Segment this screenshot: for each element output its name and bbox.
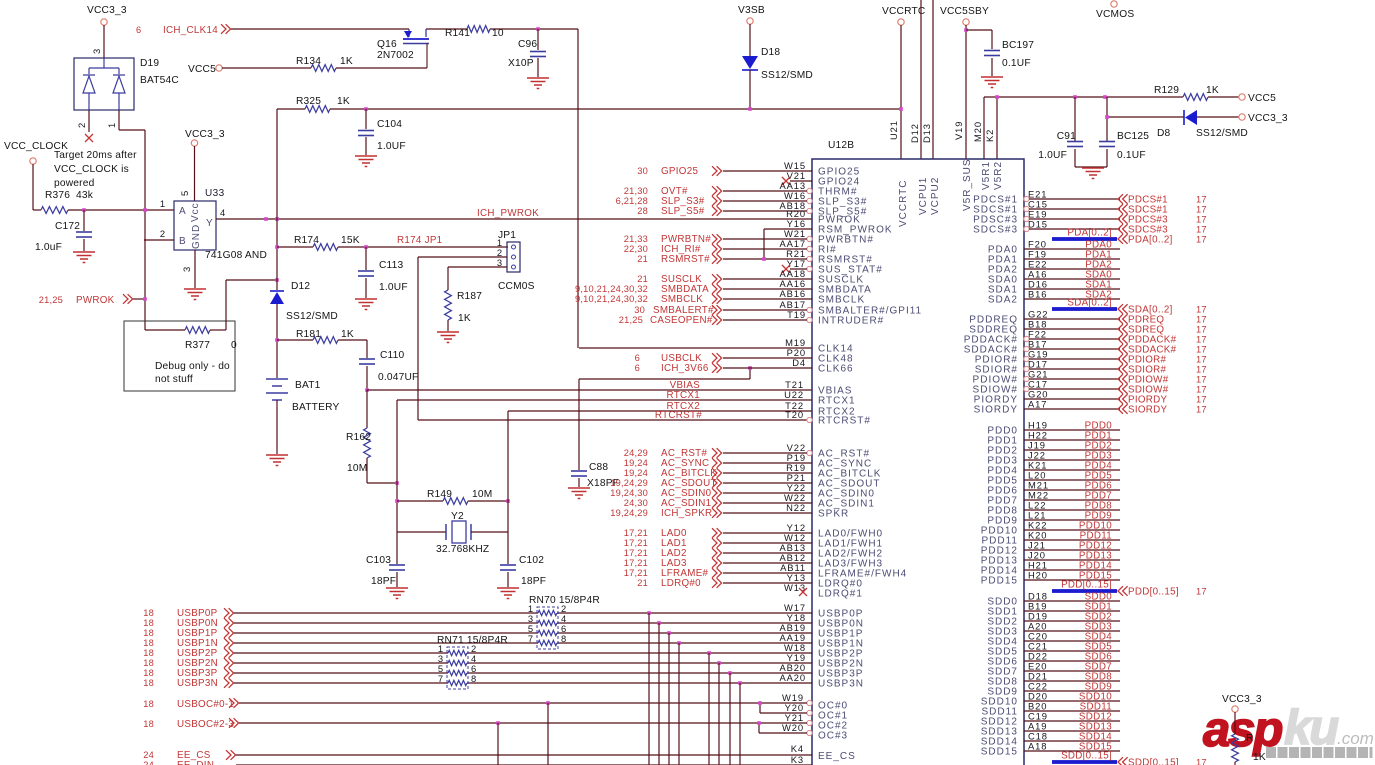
ground	[355, 298, 377, 300]
wire	[723, 552, 812, 554]
svg-text:T20: T20	[785, 409, 804, 420]
svg-text:D12: D12	[909, 123, 920, 143]
chevron	[712, 186, 722, 196]
svg-text:U22: U22	[784, 389, 804, 400]
svg-text:21,30: 21,30	[624, 186, 648, 196]
wire	[133, 298, 145, 300]
capacitor C110 0.047UF	[359, 358, 375, 360]
svg-text:R134: R134	[296, 56, 321, 67]
svg-text:ICH_3V66: ICH_3V66	[661, 363, 709, 374]
svg-text:18: 18	[143, 719, 154, 729]
chevron	[1118, 204, 1128, 214]
svg-text:U12B: U12B	[828, 140, 854, 151]
wire	[1029, 338, 1120, 340]
wire	[1024, 509, 1120, 511]
svg-text:17: 17	[1196, 235, 1207, 245]
svg-text:19,24,30: 19,24,30	[610, 488, 648, 498]
wire	[1024, 449, 1120, 451]
wire	[1024, 539, 1120, 541]
svg-text:D15: D15	[1028, 219, 1048, 230]
capacitor C102 18PF	[507, 532, 509, 564]
wire JP1 pin2 to RTCRST#	[418, 256, 507, 258]
wire	[1024, 398, 1120, 400]
wire	[145, 329, 185, 331]
wire	[447, 320, 449, 331]
svg-text:V19: V19	[953, 121, 964, 140]
svg-text:K4: K4	[791, 743, 804, 754]
wire	[723, 200, 807, 202]
wire	[1075, 166, 1107, 168]
wire	[739, 683, 741, 765]
ground	[73, 251, 95, 253]
wire	[764, 228, 812, 230]
svg-text:6: 6	[136, 25, 141, 35]
svg-text:PWROK: PWROK	[76, 295, 115, 306]
chevron	[1118, 757, 1128, 765]
bus PDD[0..15]	[1052, 589, 1117, 593]
junction	[365, 388, 369, 392]
svg-text:R377: R377	[185, 340, 210, 351]
svg-text:0.1UF: 0.1UF	[1117, 150, 1146, 161]
svg-text:not stuff: not stuff	[155, 374, 193, 385]
wire	[1024, 559, 1120, 561]
wire	[678, 643, 680, 765]
wire	[723, 309, 807, 311]
svg-text:PDD[0..15]: PDD[0..15]	[1061, 580, 1112, 591]
chevron PWROK	[123, 294, 133, 304]
capacitor C103 18PF	[396, 532, 398, 564]
wire	[1024, 750, 1120, 752]
wire	[468, 500, 508, 502]
resistor R149 10M	[397, 500, 443, 502]
chevron	[229, 698, 239, 708]
chevron	[1118, 404, 1128, 414]
svg-text:SMBCLK: SMBCLK	[661, 294, 703, 305]
wire USBP0P	[234, 612, 538, 614]
wire	[497, 723, 499, 765]
wire	[1024, 479, 1120, 481]
svg-text:GPIO25: GPIO25	[661, 166, 698, 177]
svg-text:USBOC#0-1: USBOC#0-1	[177, 699, 234, 710]
svg-text:SMBCLK: SMBCLK	[818, 295, 865, 306]
svg-text:21: 21	[637, 578, 648, 588]
svg-text:B: B	[179, 236, 187, 247]
svg-text:R174 JP1: R174 JP1	[397, 235, 442, 246]
chevron	[712, 558, 722, 568]
svg-text:6: 6	[635, 363, 640, 373]
svg-text:R376: R376	[45, 190, 70, 201]
wire	[1029, 228, 1120, 230]
svg-text:RTCX1: RTCX1	[667, 390, 700, 401]
svg-text:U21: U21	[888, 120, 899, 140]
wire	[1024, 700, 1120, 702]
wire pin V19	[965, 25, 967, 159]
svg-text:18: 18	[143, 628, 154, 638]
junction	[536, 27, 540, 31]
svg-text:8: 8	[561, 633, 567, 644]
junction	[728, 671, 732, 675]
svg-text:W20: W20	[782, 722, 804, 733]
wire	[1107, 116, 1184, 118]
svg-text:RTCRST#: RTCRST#	[655, 410, 702, 421]
svg-text:R149: R149	[427, 489, 452, 500]
svg-text:4: 4	[220, 207, 226, 218]
power VCC3_3 (right)	[1239, 114, 1245, 120]
svg-text:GND: GND	[191, 224, 202, 249]
capacitor C96	[537, 29, 539, 50]
svg-text:C91: C91	[1057, 131, 1076, 142]
resistor network RN71 15/8P4R	[447, 647, 468, 689]
wire	[547, 703, 549, 765]
op-amp U33 741G08 AND gate	[174, 201, 216, 250]
svg-text:3: 3	[181, 266, 192, 272]
wire	[1024, 610, 1120, 612]
svg-text:N22: N22	[786, 502, 806, 513]
svg-text:CASEOPEN#: CASEOPEN#	[650, 315, 713, 326]
svg-text:0.047UF: 0.047UF	[378, 372, 418, 383]
svg-text:VCMOS: VCMOS	[1096, 9, 1134, 20]
junction	[275, 217, 279, 221]
wire	[723, 582, 812, 584]
wire	[338, 339, 367, 341]
svg-text:C172: C172	[55, 221, 80, 232]
wire	[276, 304, 278, 378]
svg-text:OC#3: OC#3	[818, 731, 848, 742]
wire USBP3P	[234, 672, 448, 674]
junction	[364, 245, 368, 249]
svg-text:V5R1: V5R1	[981, 161, 992, 190]
svg-text:R174: R174	[294, 235, 319, 246]
wire	[723, 288, 812, 290]
svg-text:RTCRST#: RTCRST#	[818, 416, 871, 427]
chevron	[712, 254, 722, 264]
wire USBOC#2-3	[239, 722, 759, 724]
svg-text:17: 17	[1196, 195, 1207, 205]
wire	[723, 170, 812, 172]
wire	[723, 367, 812, 369]
wire	[1024, 730, 1120, 732]
svg-text:powered: powered	[54, 178, 95, 189]
chevron	[712, 305, 722, 315]
capacitor BC125 0.1UF	[1106, 97, 1108, 141]
svg-text:INTRUDER#: INTRUDER#	[818, 316, 884, 327]
wire	[1024, 670, 1120, 672]
chevron	[712, 284, 722, 294]
svg-text:SS12/SMD: SS12/SMD	[761, 70, 813, 81]
svg-text:1.0UF: 1.0UF	[379, 282, 408, 293]
wire	[1029, 368, 1120, 370]
chevron	[712, 578, 722, 588]
resistor network RN70 15/8P4R	[537, 607, 558, 649]
svg-text:K2: K2	[984, 129, 995, 142]
wire	[723, 238, 807, 240]
wire	[723, 532, 812, 534]
junction	[677, 641, 681, 645]
wire	[1024, 519, 1120, 521]
chevron	[1118, 234, 1128, 244]
chevron	[1118, 364, 1128, 374]
svg-text:T19: T19	[787, 309, 806, 320]
wire USBP1P	[234, 632, 538, 634]
junction	[82, 208, 86, 212]
junction	[496, 721, 500, 725]
chevron	[1118, 314, 1128, 324]
wire	[1024, 459, 1120, 461]
svg-text:18: 18	[143, 608, 154, 618]
svg-text:SDA2: SDA2	[988, 295, 1018, 306]
junction	[758, 701, 762, 705]
svg-text:SDD[0..15]: SDD[0..15]	[1128, 758, 1179, 765]
wire	[723, 492, 812, 494]
svg-text:R162: R162	[346, 432, 371, 443]
wire	[1024, 690, 1120, 692]
ground	[497, 587, 519, 589]
svg-text:R141: R141	[445, 28, 470, 39]
wire rail	[984, 96, 1183, 98]
power VCC3_3 (top left)	[101, 19, 107, 25]
chevron	[1118, 304, 1128, 314]
wire	[648, 613, 650, 765]
svg-text:SS12/SMD: SS12/SMD	[286, 311, 338, 322]
svg-text:17,21: 17,21	[624, 528, 648, 538]
ground	[386, 587, 408, 589]
svg-text:Vcc: Vcc	[190, 202, 201, 222]
svg-text:1.0UF: 1.0UF	[377, 141, 406, 152]
no-connect X	[85, 134, 93, 142]
wire	[1024, 248, 1120, 250]
wire VBIAS	[367, 389, 812, 391]
wire	[723, 278, 812, 280]
svg-text:24: 24	[143, 750, 154, 760]
svg-text:18: 18	[143, 699, 154, 709]
junction	[717, 661, 721, 665]
resistor R325 1K	[277, 108, 305, 110]
svg-text:ICH_CLK14: ICH_CLK14	[163, 25, 218, 36]
svg-text:1.0UF: 1.0UF	[1038, 150, 1067, 161]
svg-text:EE_CS: EE_CS	[818, 751, 856, 762]
svg-text:18: 18	[143, 618, 154, 628]
connector JP1 CCM0S	[507, 242, 520, 272]
chevron	[1118, 334, 1128, 344]
wire	[88, 110, 90, 132]
svg-text:R325: R325	[296, 96, 321, 107]
svg-text:7: 7	[438, 673, 444, 684]
svg-text:VCC_CLOCK is: VCC_CLOCK is	[54, 164, 129, 175]
chevron	[1118, 354, 1128, 364]
wire RTCRST#	[418, 419, 812, 421]
wire	[723, 357, 812, 359]
wire	[1024, 549, 1120, 551]
svg-text:24,30: 24,30	[624, 498, 648, 508]
wire	[723, 248, 807, 250]
wire	[1024, 600, 1120, 602]
wire	[1234, 712, 1236, 734]
wire USBP1N	[234, 642, 538, 644]
wire	[1024, 680, 1120, 682]
wire	[723, 210, 807, 212]
wire RTCX1	[397, 399, 812, 401]
svg-text:2N7002: 2N7002	[377, 50, 414, 61]
dual diode D19 BAT54C	[74, 58, 134, 110]
wire	[1024, 640, 1120, 642]
wire ICH_PWROK (Y output to IC)	[216, 218, 812, 220]
svg-text:SLP_S5#: SLP_S5#	[661, 206, 705, 217]
junction	[748, 107, 752, 111]
wire	[1024, 318, 1120, 320]
ground	[1082, 167, 1104, 169]
chevron	[712, 568, 722, 578]
svg-text:6,21,28: 6,21,28	[616, 196, 648, 206]
chevron	[712, 468, 722, 478]
svg-text:1K: 1K	[1253, 752, 1266, 763]
wire	[723, 502, 812, 504]
svg-text:AB16: AB16	[779, 288, 806, 299]
svg-text:8: 8	[471, 673, 477, 684]
resistor R129 1K	[1183, 94, 1208, 101]
junction	[143, 208, 147, 212]
chevron	[712, 448, 722, 458]
svg-text:17,21: 17,21	[624, 548, 648, 558]
svg-text:EE_DIN: EE_DIN	[177, 760, 214, 765]
svg-text:H20: H20	[1028, 570, 1048, 581]
svg-text:SDD15: SDD15	[981, 747, 1018, 758]
wire	[1234, 762, 1236, 765]
wire	[723, 512, 812, 514]
junction	[667, 631, 671, 635]
svg-text:B16: B16	[1028, 289, 1047, 300]
wire USBP3N	[234, 682, 448, 684]
svg-text:SDCS#3: SDCS#3	[973, 225, 1018, 236]
svg-text:1K: 1K	[341, 329, 354, 340]
wire	[1029, 388, 1120, 390]
svg-text:VCC5SBY: VCC5SBY	[940, 6, 989, 17]
wire	[1024, 439, 1120, 441]
svg-text:Y: Y	[206, 218, 214, 229]
wire	[276, 400, 278, 454]
chevron	[1118, 394, 1128, 404]
wire	[1024, 278, 1120, 280]
wire	[723, 542, 812, 544]
wire GND pin	[194, 250, 196, 288]
svg-text:VCC3_3: VCC3_3	[1222, 694, 1262, 705]
svg-text:17: 17	[1196, 395, 1207, 405]
resistor R187 1K	[445, 290, 452, 320]
wire Vcc pin 5	[194, 146, 196, 201]
svg-text:24: 24	[143, 760, 154, 765]
wire	[1029, 378, 1120, 380]
wire USBP2P	[234, 652, 448, 654]
wire	[366, 458, 368, 483]
wire pin D13	[932, 0, 934, 159]
wire JP1 pin3	[448, 266, 507, 268]
wire pin B	[144, 239, 174, 241]
wire	[1024, 529, 1120, 531]
svg-text:C88: C88	[589, 462, 608, 473]
capacitor C172 1.0uF	[83, 210, 85, 231]
svg-text:VCCRTC: VCCRTC	[898, 180, 909, 227]
capacitor C91 1.0UF	[1074, 97, 1076, 141]
svg-text:17: 17	[1196, 335, 1207, 345]
wire	[396, 400, 398, 532]
svg-text:R187: R187	[457, 291, 482, 302]
svg-text:19,24: 19,24	[624, 468, 648, 478]
chevron	[1118, 224, 1128, 234]
svg-text:30: 30	[637, 166, 648, 176]
svg-text:1: 1	[160, 198, 166, 209]
junction	[546, 701, 550, 705]
wire	[1208, 96, 1239, 98]
capacitor C113 1.0UF	[365, 247, 367, 270]
chevron	[712, 478, 722, 488]
svg-text:0.1UF: 0.1UF	[1002, 58, 1031, 69]
svg-text:21: 21	[637, 254, 648, 264]
svg-text:SIORDY: SIORDY	[1128, 405, 1168, 416]
resistor R376 43k	[41, 207, 68, 214]
svg-text:Debug only - do: Debug only - do	[155, 361, 230, 372]
wire	[1024, 620, 1120, 622]
svg-text:D13: D13	[921, 123, 932, 143]
svg-text:10M: 10M	[347, 463, 367, 474]
wire	[1024, 288, 1120, 290]
junction	[275, 338, 279, 342]
chevron	[712, 206, 722, 216]
junction	[506, 499, 510, 503]
bus PDA[0..2]	[1052, 237, 1117, 241]
svg-text:10: 10	[492, 28, 504, 39]
svg-text:17: 17	[1196, 385, 1207, 395]
svg-text:D19: D19	[140, 58, 159, 69]
wire	[118, 110, 120, 130]
wire	[723, 258, 807, 260]
ground	[981, 76, 1003, 78]
chevron	[1118, 344, 1128, 354]
wire USBOC#0-1	[239, 702, 760, 704]
svg-text:RTCX1: RTCX1	[818, 396, 856, 407]
svg-text:BATTERY: BATTERY	[292, 402, 339, 413]
wire	[723, 572, 812, 574]
svg-text:22,30: 22,30	[624, 244, 648, 254]
wire	[1024, 710, 1120, 712]
svg-text:V5R_SUS: V5R_SUS	[962, 158, 973, 211]
svg-text:BC125: BC125	[1117, 131, 1149, 142]
svg-text:43k: 43k	[76, 190, 94, 201]
wire	[222, 67, 311, 69]
wire EE_CS	[236, 754, 812, 756]
wire pin U21	[900, 25, 902, 159]
wire	[336, 67, 427, 69]
svg-text:ku: ku	[1284, 701, 1339, 755]
svg-text:V5R2: V5R2	[993, 161, 1004, 190]
chevron	[712, 538, 722, 548]
IC U12B	[812, 159, 1024, 765]
junction	[757, 721, 761, 725]
chevron	[1118, 214, 1128, 224]
chevron	[712, 244, 722, 254]
svg-text:18PF: 18PF	[371, 576, 396, 587]
wire	[723, 562, 812, 564]
svg-text:19,24,29: 19,24,29	[610, 478, 648, 488]
svg-text:R: R	[1246, 733, 1254, 744]
svg-text:17: 17	[1196, 345, 1207, 355]
wire	[1024, 720, 1120, 722]
wire	[338, 246, 508, 248]
svg-text:SIORDY: SIORDY	[974, 405, 1018, 416]
chevron	[712, 294, 722, 304]
chevron	[712, 196, 722, 206]
wire	[723, 298, 812, 300]
svg-text:17: 17	[1196, 375, 1207, 385]
svg-text:AA20: AA20	[779, 672, 806, 683]
